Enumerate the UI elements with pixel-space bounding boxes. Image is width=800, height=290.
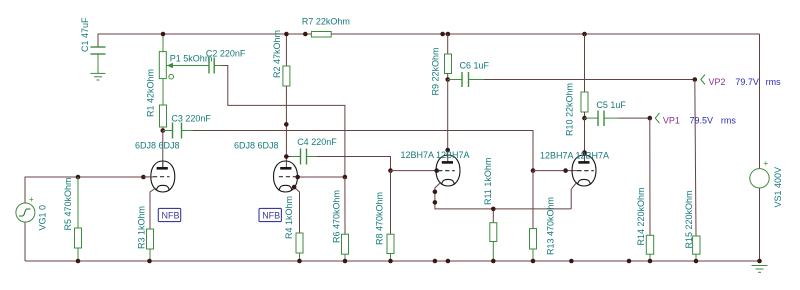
resistor R5: [75, 177, 82, 261]
node R11 bottom rail dot: [491, 259, 496, 264]
node R7 left pin dot: [303, 32, 308, 37]
resistor R3: [147, 229, 154, 261]
voltage source VS1: [750, 159, 769, 188]
svg-text:NFB: NFB: [262, 211, 280, 221]
svg-text:rms: rms: [721, 116, 736, 126]
node tube3 grid pin dot: [434, 168, 439, 173]
ground below C1: [91, 73, 106, 80]
wire tube3 grid wire: [391, 170, 441, 172]
triode tube1 6DJ8: [143, 161, 174, 229]
node C4 left junction: [284, 154, 289, 159]
node R8 bottom rail dot: [388, 259, 393, 264]
node tube4 grid pin dot: [563, 168, 568, 173]
wire bottom ground rail: [25, 260, 760, 262]
svg-text:R3 1kOhm: R3 1kOhm: [137, 206, 147, 249]
probe VP1: [655, 113, 736, 126]
node VP1 junction: [648, 116, 653, 121]
node R2 rail dot: [284, 32, 289, 37]
svg-text:12BH7A 12BH7A: 12BH7A 12BH7A: [540, 151, 609, 161]
feedback label NFB 2: [259, 208, 281, 221]
node R13 bottom rail dot: [531, 259, 536, 264]
svg-text:NFB: NFB: [162, 211, 180, 221]
node R9 rail dot: [446, 32, 451, 37]
node R4 bottom rail dot: [297, 259, 302, 264]
capacitor C4: [286, 149, 390, 171]
node VP2 junction: [693, 77, 698, 82]
potentiometer P1: [159, 34, 208, 106]
node tube3 cathode dot upper: [433, 190, 438, 195]
wire VG1 top lead: [24, 222, 26, 261]
triode tube3 12BH7A: [435, 155, 571, 209]
node R3 bottom rail dot: [147, 259, 152, 264]
node tube1 grid dot: [141, 175, 146, 180]
wire VS1 column: [759, 34, 761, 169]
capacitor C2: [209, 58, 345, 178]
node VS1 bottom rail dot: [757, 259, 762, 264]
node plate column dot: [284, 122, 289, 127]
svg-text:79.5V: 79.5V: [690, 116, 714, 126]
svg-text:R11 1kOhm: R11 1kOhm: [483, 158, 493, 205]
svg-text:rms: rms: [766, 77, 781, 87]
node tube2 grid pin dot: [295, 175, 300, 180]
node R10 bottom junction: [582, 116, 587, 121]
svg-text:R7 22kOhm: R7 22kOhm: [302, 17, 350, 27]
svg-text:VP2: VP2: [709, 77, 726, 87]
svg-text:R15 220kOhm: R15 220kOhm: [684, 190, 694, 248]
svg-text:R5 470kOhm: R5 470kOhm: [63, 177, 73, 230]
resistor R15: [693, 80, 700, 262]
svg-text:R9 22kOhm: R9 22kOhm: [431, 47, 441, 95]
node tube2 cathode pin dot: [292, 185, 297, 190]
node R1 bottom junction: [161, 128, 166, 133]
node R8 top junction: [388, 168, 393, 173]
node R14 bottom rail dot: [648, 259, 653, 264]
resistor R7: [311, 32, 331, 38]
svg-text:VG1 0: VG1 0: [37, 205, 47, 231]
node R5 top junction: [76, 175, 81, 180]
svg-text:R2 47kOhm: R2 47kOhm: [272, 30, 282, 78]
node P1 top rail dot: [161, 32, 166, 37]
probe VP2: [701, 75, 781, 88]
resistor R2: [283, 34, 290, 168]
resistor R6: [342, 177, 349, 261]
svg-text:6DJ8 6DJ8: 6DJ8 6DJ8: [135, 141, 180, 151]
svg-text:R6 470kOhm: R6 470kOhm: [332, 190, 342, 243]
resistor R8: [387, 171, 394, 261]
feedback label NFB 1: [158, 208, 180, 221]
node R11 top junction: [491, 207, 496, 212]
resistor R13: [530, 171, 537, 261]
resistor R1: [160, 105, 167, 131]
resistor R11: [490, 209, 497, 261]
svg-text:C5 1uF: C5 1uF: [596, 100, 626, 110]
wire tube3 plate column: [447, 80, 449, 163]
node R9 bottom junction: [445, 77, 450, 82]
node R6 bottom rail dot: [343, 259, 348, 264]
voltage source VG1: [16, 195, 35, 222]
resistor R4: [296, 233, 303, 261]
node tube3 plate pin dot: [445, 148, 450, 153]
svg-text:VS1 400V: VS1 400V: [773, 167, 783, 208]
capacitor C1: [90, 34, 105, 73]
svg-text:R14 220kOhm: R14 220kOhm: [636, 187, 646, 245]
ground at VS1: [752, 266, 768, 273]
node orphan rail dots: [433, 259, 438, 264]
resistor R9: [445, 34, 452, 80]
svg-text:12BH7A 12BH7A: 12BH7A 12BH7A: [401, 150, 470, 160]
svg-text:R13 470kOhm: R13 470kOhm: [546, 197, 556, 255]
node R15 bottom rail dot: [694, 259, 699, 264]
svg-text:79.7V: 79.7V: [735, 77, 759, 87]
svg-text:C6 1uF: C6 1uF: [460, 60, 490, 70]
node rail segment dot left of R9: [440, 32, 445, 37]
svg-text:C1 47uF: C1 47uF: [80, 17, 90, 52]
svg-text:R10 22kOhm: R10 22kOhm: [565, 83, 575, 136]
svg-text:R8 470kOhm: R8 470kOhm: [375, 192, 385, 245]
resistor R14: [646, 118, 653, 261]
svg-text:C2 220nF: C2 220nF: [206, 49, 246, 59]
wire tube1 plate column: [162, 131, 164, 169]
node tube3 cathode dot lower: [433, 200, 438, 205]
svg-text:+: +: [764, 159, 769, 168]
node R10 rail dot: [582, 32, 587, 37]
wire tube4 plate column: [584, 118, 586, 162]
svg-text:C4 220nF: C4 220nF: [297, 137, 337, 147]
node R5 bottom rail dot: [76, 259, 81, 264]
node tube2 grid network junction: [343, 175, 348, 180]
capacitor C6: [448, 72, 695, 87]
svg-text:R4 1kOhm: R4 1kOhm: [284, 196, 294, 239]
wire top supply rail: [98, 33, 312, 35]
resistor R10: [581, 34, 588, 118]
svg-text:+: +: [29, 195, 34, 204]
triode tube4 12BH7A: [571, 155, 596, 209]
capacitor C5: [585, 111, 650, 127]
wire tube4 grid wire: [533, 170, 578, 172]
svg-text:C3 220nF: C3 220nF: [171, 114, 211, 124]
svg-text:VP1: VP1: [663, 116, 680, 126]
node tube4 plate pin dot: [582, 150, 587, 155]
capacitor C3: [163, 123, 533, 171]
svg-text:R1 42kOhm: R1 42kOhm: [146, 69, 156, 117]
triode tube2 6DJ8 (mirrored): [274, 161, 345, 233]
svg-text:6DJ8 6DJ8: 6DJ8 6DJ8: [234, 141, 279, 151]
node C3 to tube4 grid junction: [531, 168, 536, 173]
